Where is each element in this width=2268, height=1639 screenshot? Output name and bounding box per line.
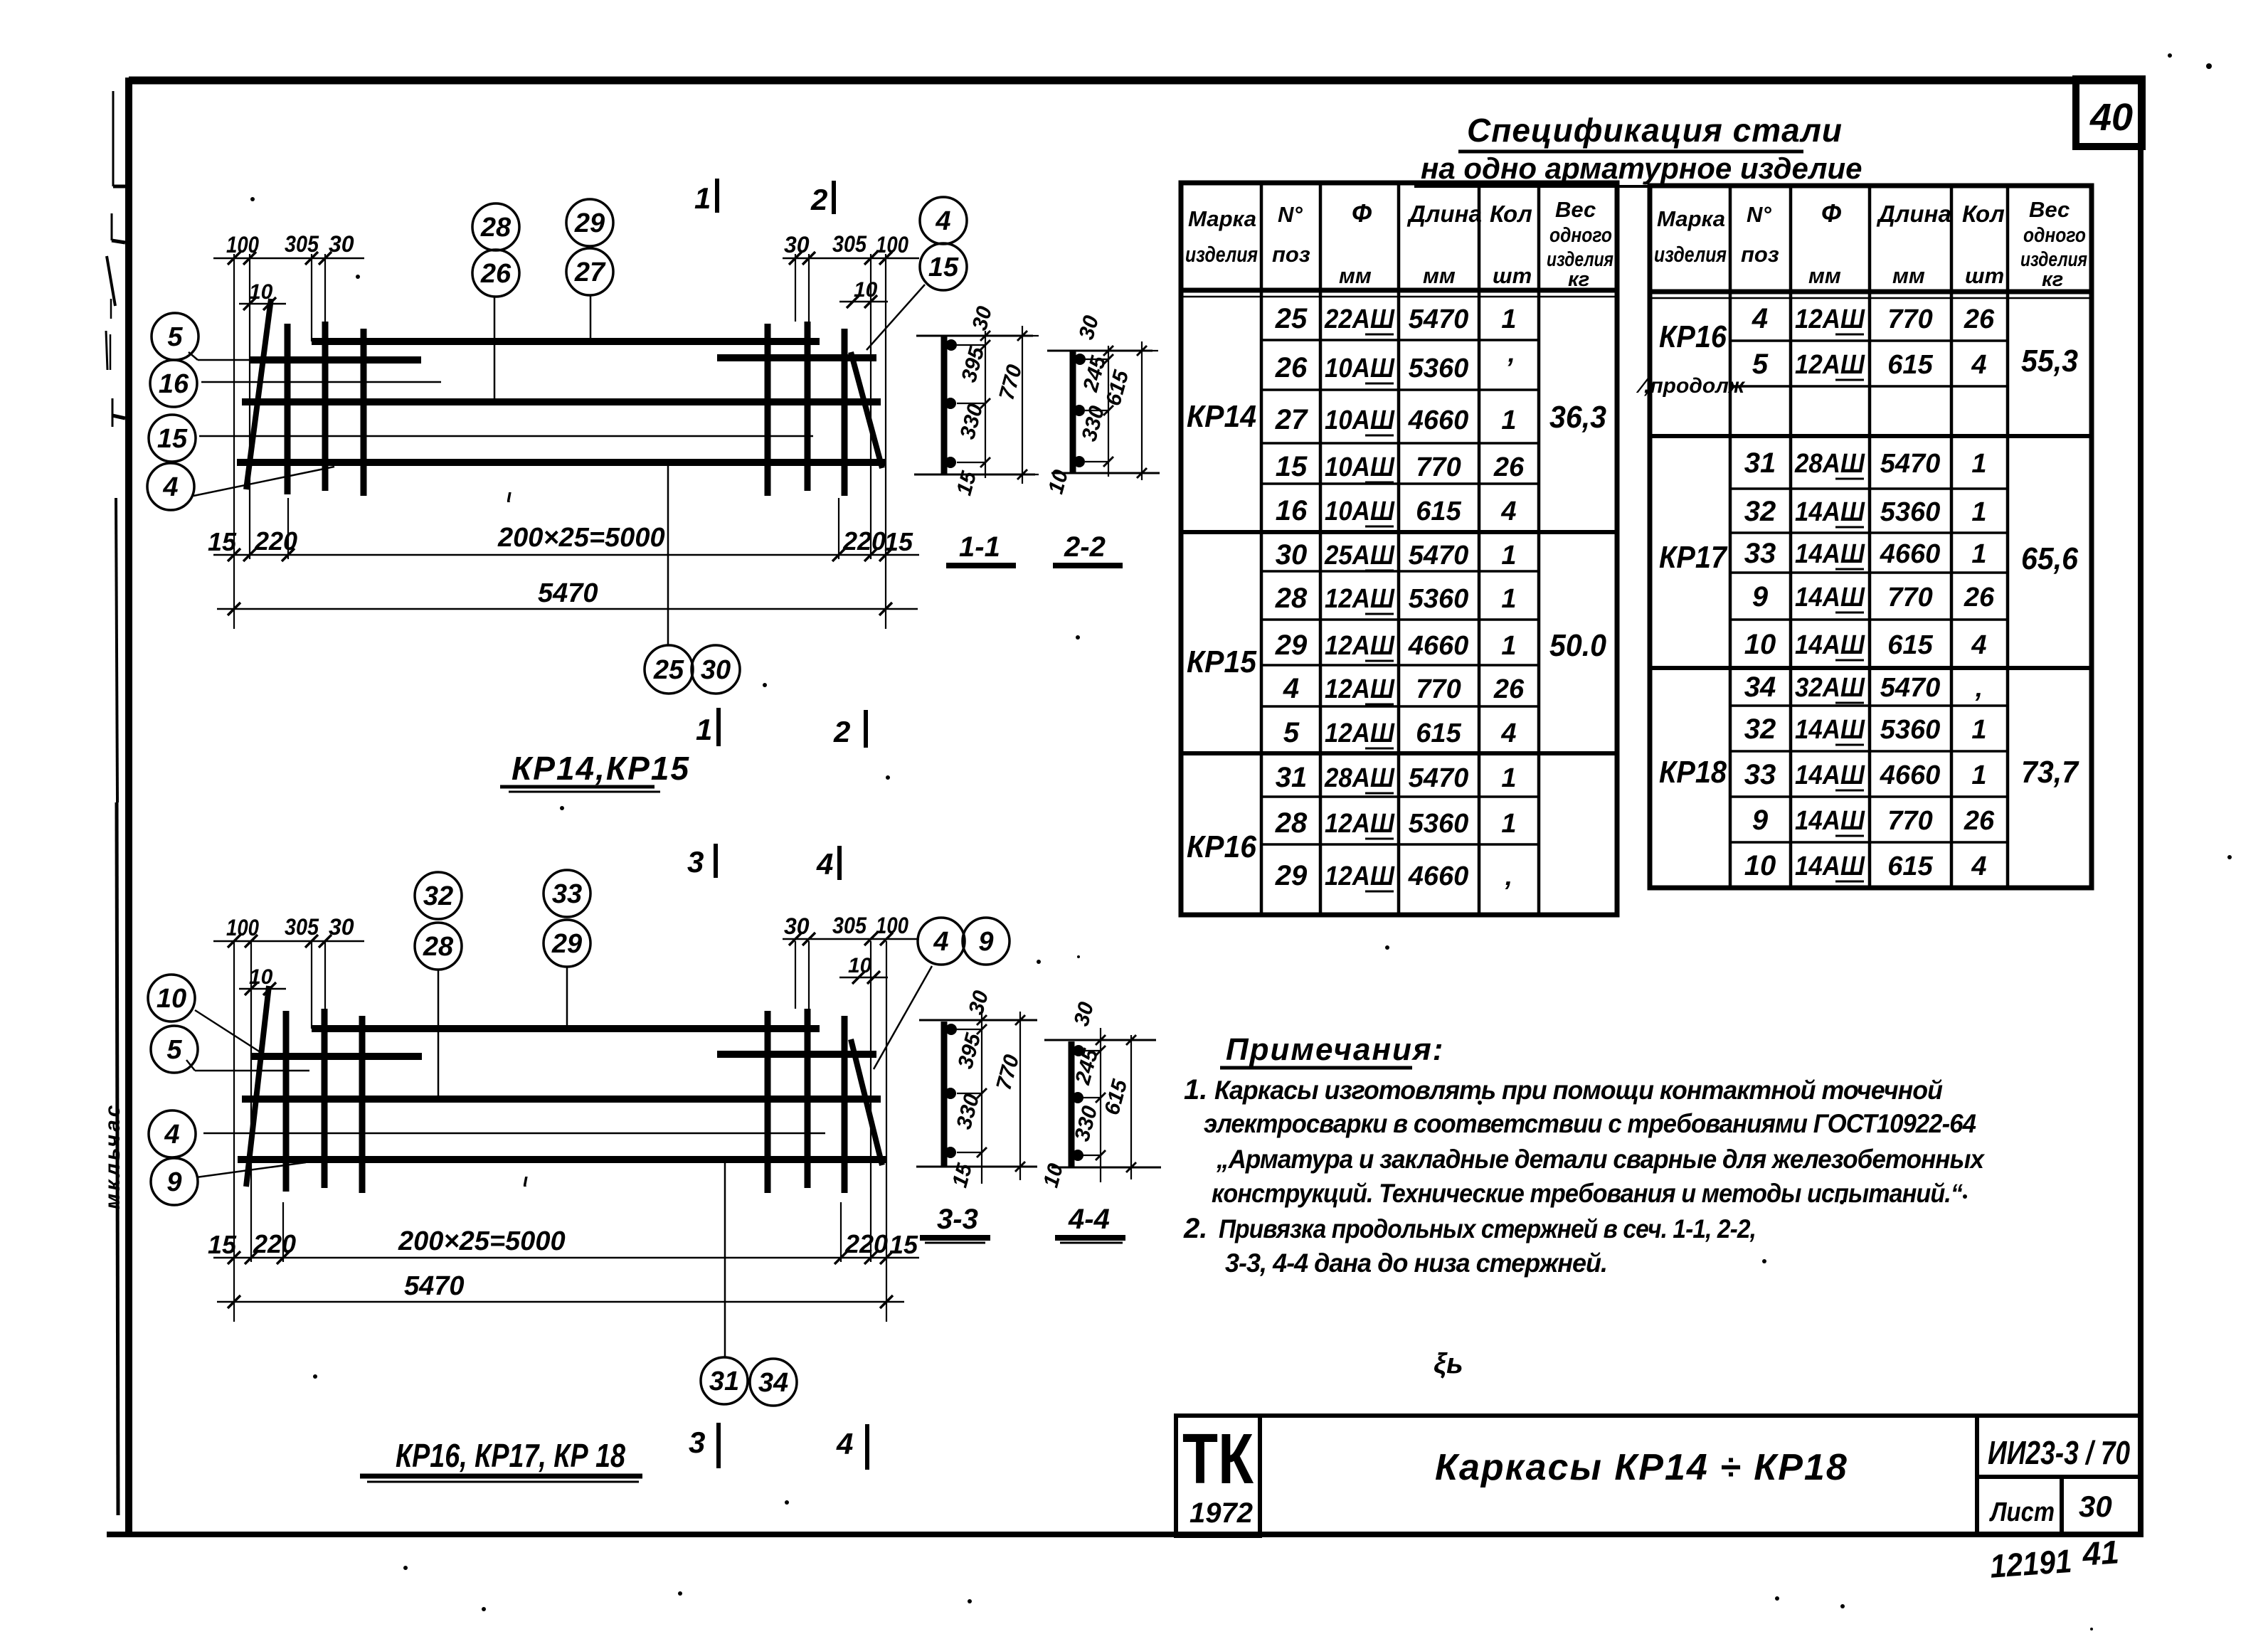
svg-text:220: 220 bbox=[844, 1229, 888, 1258]
section 3-3 rebar dots bbox=[945, 1024, 957, 1035]
svg-text:9: 9 bbox=[1752, 581, 1769, 612]
svg-text:14АШ: 14АШ bbox=[1795, 583, 1865, 612]
svg-text:14АШ: 14АШ bbox=[1795, 539, 1865, 569]
svg-text:770: 770 bbox=[1416, 674, 1461, 704]
svg-text:3-3: 3-3 bbox=[937, 1204, 978, 1235]
svg-text:220: 220 bbox=[842, 526, 886, 556]
section 3-3 dim line inner bbox=[981, 1008, 982, 1184]
svg-text:Длина: Длина bbox=[1406, 201, 1482, 227]
svg-text:изделия: изделия bbox=[1654, 242, 1727, 267]
cage1 top dimension line right bbox=[783, 258, 919, 260]
cage1 callout circle 15 right bbox=[920, 243, 967, 290]
cage1 left end diagonal bar bbox=[246, 299, 271, 489]
cage2 top dimension line right bbox=[783, 938, 919, 940]
stray speck 2 bbox=[886, 775, 890, 780]
svg-text:шт: шт bbox=[1965, 263, 2004, 288]
svg-text:1: 1 bbox=[1501, 584, 1516, 614]
svg-text:кг: кг bbox=[2042, 268, 2063, 291]
section 4-4 rebar dots bbox=[1073, 1045, 1084, 1056]
svg-text:КР16: КР16 bbox=[1659, 319, 1727, 354]
svg-text:10: 10 bbox=[157, 984, 186, 1014]
svg-text:ξь: ξь bbox=[1434, 1348, 1463, 1379]
svg-text:73,7: 73,7 bbox=[2021, 755, 2079, 790]
svg-text:Кол: Кол bbox=[1962, 201, 2005, 227]
svg-text:5360: 5360 bbox=[1409, 584, 1469, 614]
section 1-1 bottom boundary bbox=[914, 474, 1035, 476]
cage1 callout circle 4 bbox=[147, 463, 194, 510]
svg-text:4: 4 bbox=[935, 206, 950, 236]
svg-text:4: 4 bbox=[1971, 630, 1986, 660]
svg-text:5470: 5470 bbox=[1880, 673, 1941, 703]
svg-text:770: 770 bbox=[1416, 452, 1461, 482]
cage KP14/KP15 top chord bar pos27 bbox=[312, 338, 820, 345]
cage2 callout circle 33 bbox=[544, 870, 590, 917]
svg-text:КР16: КР16 bbox=[1187, 829, 1256, 864]
svg-text:28: 28 bbox=[1275, 807, 1308, 839]
cage2 callout circle 9 right bbox=[963, 918, 1010, 965]
svg-text:40: 40 bbox=[2089, 96, 2133, 139]
section 2-2 dim line outer bbox=[1141, 341, 1143, 480]
svg-text:15: 15 bbox=[889, 1230, 918, 1259]
stray speck 11 bbox=[1385, 945, 1389, 950]
svg-text:мм: мм bbox=[1892, 263, 1925, 288]
cage2 dimension extension lines bbox=[233, 941, 235, 1322]
svg-text:2.: 2. bbox=[1183, 1213, 1207, 1244]
svg-text:4: 4 bbox=[816, 847, 833, 881]
svg-text:4660: 4660 bbox=[1880, 539, 1941, 569]
svg-text:КР14: КР14 bbox=[1187, 399, 1256, 434]
section 2-2 dim line inner bbox=[1108, 346, 1109, 477]
section 2-2 bar bbox=[1070, 351, 1076, 473]
outer rough border left bbox=[112, 91, 115, 186]
svg-text:29: 29 bbox=[551, 929, 582, 959]
cage1 callout circle 15 bbox=[149, 415, 196, 462]
cage1 leader pos15 right bbox=[867, 285, 925, 350]
cage1 right end diagonal bar bbox=[851, 352, 882, 468]
svg-text:4-4: 4-4 bbox=[1068, 1204, 1110, 1235]
svg-text:200×25=5000: 200×25=5000 bbox=[497, 523, 665, 553]
svg-text:2: 2 bbox=[810, 183, 827, 216]
svg-text:5470: 5470 bbox=[1409, 763, 1469, 793]
svg-text:2-2: 2-2 bbox=[1064, 531, 1106, 563]
left spec table grid bbox=[1181, 183, 1617, 915]
section 2-2 rebar dots bbox=[1074, 354, 1086, 365]
svg-text:Вес: Вес bbox=[2029, 197, 2070, 222]
section 1-1 bar bbox=[941, 336, 948, 474]
cage1 leader pos26 bbox=[494, 297, 496, 401]
svg-text:12АШ: 12АШ bbox=[1325, 584, 1395, 614]
svg-text:мкльчас: мкльчас bbox=[101, 1103, 124, 1209]
right spec table grid bbox=[1650, 186, 2092, 888]
svg-text:Длина: Длина bbox=[1876, 201, 1951, 227]
cage1 dimension extension lines bbox=[233, 254, 235, 629]
svg-text:15: 15 bbox=[157, 424, 188, 454]
svg-text:4: 4 bbox=[836, 1427, 853, 1460]
svg-text:1-1: 1-1 bbox=[959, 531, 1000, 563]
svg-text:4: 4 bbox=[162, 472, 178, 502]
svg-text:30: 30 bbox=[784, 232, 810, 258]
cage1 bottom chord bar pos25 bbox=[237, 459, 886, 466]
svg-text:33: 33 bbox=[552, 879, 582, 909]
svg-text:КР15: КР15 bbox=[1187, 645, 1256, 679]
svg-text:Ф: Ф bbox=[1821, 198, 1841, 228]
svg-text:32АШ: 32АШ bbox=[1795, 673, 1865, 703]
cage1 leader pos25/30 bbox=[667, 462, 669, 645]
svg-text:9: 9 bbox=[1752, 805, 1769, 836]
cage2 right crossbars pos9 bbox=[765, 1011, 771, 1193]
svg-text:26: 26 bbox=[1964, 583, 1995, 612]
svg-text:Вес: Вес bbox=[1555, 197, 1596, 222]
section 4-4 bottom boundary bbox=[1051, 1167, 1161, 1169]
svg-text:55,3: 55,3 bbox=[2021, 344, 2078, 378]
stray speck 1 bbox=[356, 275, 360, 279]
title block inner horizontal bbox=[1977, 1475, 2141, 1479]
cage2 callout circle 4 right bbox=[918, 918, 965, 965]
svg-text:4: 4 bbox=[1500, 718, 1516, 748]
svg-text:1: 1 bbox=[1501, 541, 1516, 571]
svg-text:⁄,продолж: ⁄,продолж bbox=[1636, 374, 1746, 398]
svg-text:770: 770 bbox=[1887, 304, 1932, 334]
svg-text:Марка: Марка bbox=[1657, 206, 1725, 231]
cage1 callout circle 25 bbox=[645, 645, 693, 694]
stray speck 3 bbox=[968, 1599, 972, 1603]
svg-text:14АШ: 14АШ bbox=[1795, 806, 1865, 836]
svg-text:5: 5 bbox=[1283, 717, 1300, 748]
svg-text:26: 26 bbox=[1275, 352, 1308, 383]
cage2 middle bar pos32 bbox=[242, 1096, 881, 1103]
svg-text:1: 1 bbox=[1501, 631, 1516, 661]
svg-text:12АШ: 12АШ bbox=[1325, 861, 1395, 891]
svg-text:4: 4 bbox=[1971, 852, 1986, 881]
svg-text:12АШ: 12АШ bbox=[1325, 674, 1395, 704]
border frame bbox=[129, 77, 2141, 85]
svg-text:15: 15 bbox=[1276, 451, 1308, 482]
svg-text:9: 9 bbox=[166, 1167, 181, 1197]
svg-text:10: 10 bbox=[249, 965, 273, 989]
svg-text:100: 100 bbox=[226, 915, 259, 940]
svg-text:305: 305 bbox=[285, 914, 319, 940]
cage1 sub dimension 10 left bbox=[239, 303, 286, 305]
svg-text:4660: 4660 bbox=[1408, 405, 1469, 435]
svg-text:„Арматура и закладные детали: „Арматура и закладные детали сварные для… bbox=[1216, 1145, 1985, 1174]
cage2 top dimension line left bbox=[213, 940, 364, 943]
cage2 leader pos9 left bbox=[196, 1162, 306, 1177]
svg-text:1: 1 bbox=[1501, 809, 1516, 839]
svg-text:10: 10 bbox=[1744, 629, 1776, 660]
svg-text:электросварки в соответствии: электросварки в соответствии с требовани… bbox=[1204, 1109, 1976, 1138]
svg-text:10АШ: 10АШ bbox=[1325, 497, 1395, 526]
cage2 bottom chord bar pos34 bbox=[238, 1156, 886, 1163]
svg-text:27: 27 bbox=[1275, 404, 1308, 435]
svg-text:5360: 5360 bbox=[1880, 497, 1941, 527]
svg-text:30: 30 bbox=[329, 231, 354, 257]
svg-text:31: 31 bbox=[709, 1367, 739, 1396]
svg-text:4: 4 bbox=[1283, 673, 1299, 704]
svg-text:16: 16 bbox=[1276, 495, 1308, 526]
svg-text:КР18: КР18 bbox=[1659, 755, 1727, 790]
svg-text:10АШ: 10АШ bbox=[1325, 405, 1395, 435]
cage1 callout circle 30 bbox=[691, 645, 740, 694]
stray speck 4 bbox=[678, 1591, 682, 1596]
svg-text:25: 25 bbox=[1275, 303, 1308, 334]
svg-text:305: 305 bbox=[832, 913, 867, 938]
cage2 callout circle 5 bbox=[151, 1026, 198, 1073]
svg-text:Примечания:: Примечания: bbox=[1226, 1032, 1444, 1067]
svg-text:5360: 5360 bbox=[1880, 715, 1941, 745]
svg-text:ИИ23-3 / 70: ИИ23-3 / 70 bbox=[1988, 1434, 2130, 1471]
handwritten inventory number bbox=[1988, 1533, 2121, 1585]
section 3-3 dim line outer bbox=[1019, 1012, 1021, 1180]
svg-text:1: 1 bbox=[1971, 760, 1986, 790]
svg-text:33: 33 bbox=[1744, 759, 1776, 790]
svg-text:615: 615 bbox=[1887, 852, 1933, 881]
svg-text:770: 770 bbox=[1887, 806, 1932, 836]
svg-text:1: 1 bbox=[694, 181, 711, 215]
svg-text:одного: одного bbox=[1549, 224, 1612, 247]
section 4-4 top boundary bbox=[1044, 1039, 1156, 1041]
cage2 callout circle 34 bbox=[750, 1359, 797, 1406]
sheet corner cut mark bbox=[107, 1532, 171, 1537]
svg-text:КР16, КР17, КР 18: КР16, КР17, КР 18 bbox=[396, 1437, 625, 1474]
cage1 leader line pos15 bbox=[199, 435, 813, 437]
svg-text:1.: 1. bbox=[1184, 1074, 1207, 1105]
cage1 callout circle 28 bbox=[472, 203, 519, 250]
cage2 overall dimension 5470 bbox=[217, 1301, 904, 1303]
svg-text:10: 10 bbox=[854, 278, 878, 302]
section 1-1 top boundary bbox=[916, 335, 1033, 337]
svg-text:5360: 5360 bbox=[1409, 809, 1469, 839]
cage2 callout circle 28 bbox=[415, 923, 462, 970]
cage2 leader pos4 left bbox=[203, 1133, 825, 1135]
stray speck 8 bbox=[1762, 1259, 1766, 1263]
cage2 left crossbars pos9 bbox=[283, 1011, 290, 1192]
svg-text:305: 305 bbox=[832, 231, 867, 257]
TK stamp box bbox=[1176, 1416, 1260, 1536]
svg-text:29: 29 bbox=[574, 208, 605, 238]
svg-text:кг: кг bbox=[1568, 268, 1589, 291]
svg-text:4: 4 bbox=[1752, 303, 1768, 334]
svg-text:30: 30 bbox=[1276, 539, 1308, 571]
svg-text:28АШ: 28АШ bbox=[1324, 763, 1395, 793]
svg-text:12АШ: 12АШ bbox=[1325, 631, 1395, 661]
svg-text:12АШ: 12АШ bbox=[1795, 350, 1865, 380]
section 3-3 top boundary bbox=[919, 1019, 1037, 1022]
svg-text:1: 1 bbox=[1501, 405, 1516, 435]
svg-text:Каркасы изготовлять при помо: Каркасы изготовлять при помощи контактно… bbox=[1214, 1076, 1942, 1105]
cage1 callout circle 29 bbox=[566, 199, 613, 246]
svg-text:Кол: Кол bbox=[1490, 201, 1532, 227]
svg-text:26: 26 bbox=[480, 259, 512, 289]
svg-text:615: 615 bbox=[1887, 350, 1933, 380]
svg-text:поз: поз bbox=[1272, 242, 1310, 267]
svg-text:5: 5 bbox=[167, 322, 183, 352]
svg-text:26: 26 bbox=[1493, 452, 1525, 482]
stray speck 13 bbox=[313, 1374, 317, 1379]
svg-text:25АШ: 25АШ bbox=[1324, 541, 1395, 571]
svg-text:32: 32 bbox=[1744, 714, 1776, 745]
svg-text:4: 4 bbox=[1500, 497, 1516, 526]
svg-text:3-3, 4-4 дана до низа сте: 3-3, 4-4 дана до низа стержней. bbox=[1225, 1248, 1607, 1278]
cage1 overall dimension 5470 bbox=[217, 608, 918, 610]
svg-text:5: 5 bbox=[166, 1035, 182, 1065]
svg-text:14АШ: 14АШ bbox=[1795, 630, 1865, 660]
svg-text:220: 220 bbox=[253, 1229, 296, 1258]
svg-text:29: 29 bbox=[1275, 630, 1308, 661]
svg-text:3: 3 bbox=[689, 1426, 705, 1459]
section 2-2 top boundary bbox=[1047, 350, 1152, 352]
svg-text:65,6: 65,6 bbox=[2021, 541, 2078, 576]
cage1 left crossbars pos15 bbox=[285, 324, 291, 494]
cage1 middle bar pos26 bbox=[242, 398, 881, 405]
svg-text:28: 28 bbox=[1275, 583, 1308, 614]
svg-text:10АШ: 10АШ bbox=[1325, 452, 1395, 482]
svg-text:31: 31 bbox=[1276, 762, 1308, 793]
title block top line bbox=[1176, 1413, 2141, 1418]
stray speck 14 bbox=[250, 197, 255, 201]
svg-text:5360: 5360 bbox=[1409, 354, 1469, 383]
svg-text:Привязка продольных стержн: Привязка продольных стержней в сеч. 1-1,… bbox=[1219, 1214, 1756, 1243]
cage1 leader pos27 bbox=[590, 295, 592, 340]
svg-text:‚: ‚ bbox=[1505, 861, 1513, 891]
svg-text:одного: одного bbox=[2023, 224, 2086, 247]
cage1 callout circle 27 bbox=[566, 248, 613, 295]
svg-text:1: 1 bbox=[696, 713, 712, 746]
svg-text:1: 1 bbox=[1971, 449, 1986, 479]
svg-text:1: 1 bbox=[1501, 763, 1516, 793]
svg-text:1972: 1972 bbox=[1189, 1497, 1253, 1529]
section 1-1 rebar dots bbox=[945, 339, 957, 351]
stray speck 10 bbox=[403, 1566, 408, 1570]
svg-text:мм: мм bbox=[1339, 263, 1372, 288]
svg-text:100: 100 bbox=[226, 232, 259, 258]
cage2 callout circle 31 bbox=[701, 1357, 748, 1404]
svg-text:25: 25 bbox=[653, 655, 684, 685]
svg-text:10: 10 bbox=[1744, 850, 1776, 881]
svg-text:изделия: изделия bbox=[1185, 242, 1258, 267]
cage1 callout circle 4 right bbox=[920, 197, 967, 244]
svg-text:4660: 4660 bbox=[1408, 861, 1469, 891]
svg-text:’: ’ bbox=[1505, 354, 1513, 383]
svg-text:1: 1 bbox=[1971, 539, 1986, 569]
svg-text:‚: ‚ bbox=[1975, 673, 1983, 703]
svg-text:10: 10 bbox=[848, 954, 872, 977]
cage1 leader line pos16 bbox=[201, 381, 441, 383]
cage2 leader pos31/34 bbox=[724, 1160, 726, 1357]
svg-text:2: 2 bbox=[833, 715, 850, 748]
section 4-4 dim line outer bbox=[1130, 1035, 1132, 1179]
cage1 left stub bar pos5 bbox=[249, 356, 421, 364]
cage2 top chord bar pos33 bbox=[312, 1025, 820, 1032]
svg-text:10АШ: 10АШ bbox=[1325, 354, 1395, 383]
svg-text:КР14,КР15: КР14,КР15 bbox=[512, 750, 690, 787]
svg-text:5: 5 bbox=[1752, 349, 1769, 380]
cage2 bottom dimension line 200x25=5000 bbox=[213, 1257, 919, 1259]
cage2 right stub bar pos10 bbox=[717, 1051, 876, 1058]
svg-text:32: 32 bbox=[1744, 496, 1776, 527]
cage1 sub dimension 10 right bbox=[839, 301, 888, 303]
cage1 callout circle 16 bbox=[150, 360, 197, 407]
svg-text:36,3: 36,3 bbox=[1549, 400, 1606, 435]
svg-text:50.0: 50.0 bbox=[1549, 628, 1606, 663]
stray speck 6 bbox=[2206, 63, 2212, 69]
svg-text:220: 220 bbox=[254, 526, 297, 556]
svg-text:33: 33 bbox=[1744, 538, 1776, 569]
section 1-1 dim line outer bbox=[1022, 326, 1023, 484]
stray speck 12 bbox=[1765, 886, 1769, 890]
svg-text:конструкций. Технические треб: конструкций. Технические требования и ме… bbox=[1212, 1179, 1963, 1208]
title block divider vertical bbox=[1975, 1416, 1979, 1536]
cage1 bottom dimension line 200x25=5000 bbox=[213, 554, 919, 556]
section 1-1 dim line inner bbox=[985, 331, 986, 478]
svg-text:34: 34 bbox=[1744, 672, 1776, 703]
svg-text:31: 31 bbox=[1744, 447, 1776, 479]
svg-text:Ф: Ф bbox=[1352, 198, 1372, 228]
svg-text:770: 770 bbox=[1887, 583, 1932, 612]
cage1 leader pos4 bbox=[194, 467, 334, 496]
cage2 leader pos28 bbox=[438, 970, 440, 1098]
left margin marks bbox=[107, 256, 115, 306]
svg-text:4660: 4660 bbox=[1880, 760, 1941, 790]
svg-text:5470: 5470 bbox=[1409, 541, 1469, 571]
svg-text:мм: мм bbox=[1808, 263, 1841, 288]
svg-text:1: 1 bbox=[1501, 304, 1516, 334]
svg-text:100: 100 bbox=[876, 232, 908, 258]
svg-text:28: 28 bbox=[480, 213, 512, 243]
svg-text:4: 4 bbox=[933, 927, 948, 957]
cage2 leader pos29 bbox=[566, 967, 568, 1027]
svg-text:30: 30 bbox=[2079, 1490, 2112, 1523]
svg-text:12АШ: 12АШ bbox=[1325, 809, 1395, 839]
svg-text:на одно арматурное изделие: на одно арматурное изделие bbox=[1421, 152, 1862, 185]
cage2 callout circle 29 bbox=[544, 920, 590, 967]
svg-text:16: 16 bbox=[159, 369, 189, 399]
svg-text:15: 15 bbox=[928, 253, 959, 282]
list cell divider bbox=[2060, 1477, 2064, 1536]
svg-text:ι: ι bbox=[507, 485, 512, 506]
svg-text:КР17: КР17 bbox=[1659, 540, 1728, 575]
cage2 callout circle 9 left bbox=[151, 1158, 198, 1205]
svg-text:Спецификация стали: Спецификация стали bbox=[1467, 112, 1843, 149]
cage2 callout circle 32 bbox=[415, 872, 462, 919]
svg-text:N°: N° bbox=[1747, 202, 1771, 227]
svg-text:Каркасы КР14 ÷ КР18: Каркасы КР14 ÷ КР18 bbox=[1435, 1447, 1848, 1488]
svg-text:4: 4 bbox=[164, 1120, 179, 1150]
cage2 callout circle 4 left bbox=[149, 1110, 196, 1157]
svg-text:14АШ: 14АШ bbox=[1795, 715, 1865, 745]
svg-text:9: 9 bbox=[978, 927, 993, 957]
svg-text:5470: 5470 bbox=[404, 1271, 465, 1301]
svg-text:29: 29 bbox=[1275, 860, 1308, 891]
stray speck 5 bbox=[1775, 1596, 1779, 1601]
svg-text:4660: 4660 bbox=[1408, 631, 1469, 661]
svg-text:34: 34 bbox=[758, 1368, 788, 1398]
svg-text:12АШ: 12АШ bbox=[1795, 304, 1865, 334]
svg-text:615: 615 bbox=[1416, 497, 1461, 526]
cage2 leader pos10 left bbox=[195, 1010, 265, 1055]
svg-text:30: 30 bbox=[701, 655, 731, 685]
svg-text:5470: 5470 bbox=[1409, 304, 1469, 334]
cage1 right stub bar pos16 bbox=[717, 354, 876, 361]
cage1 top dimension line left bbox=[213, 258, 364, 260]
cage1 callout circle 26 bbox=[472, 250, 519, 297]
section 4-4 dim line inner bbox=[1100, 1028, 1101, 1182]
svg-text:27: 27 bbox=[574, 258, 606, 287]
svg-text:4: 4 bbox=[1971, 350, 1986, 380]
svg-text:26: 26 bbox=[1493, 674, 1525, 704]
cage2 right end diagonal bar bbox=[851, 1039, 882, 1165]
svg-text:1: 1 bbox=[1971, 715, 1986, 745]
svg-text:5470: 5470 bbox=[538, 578, 598, 608]
